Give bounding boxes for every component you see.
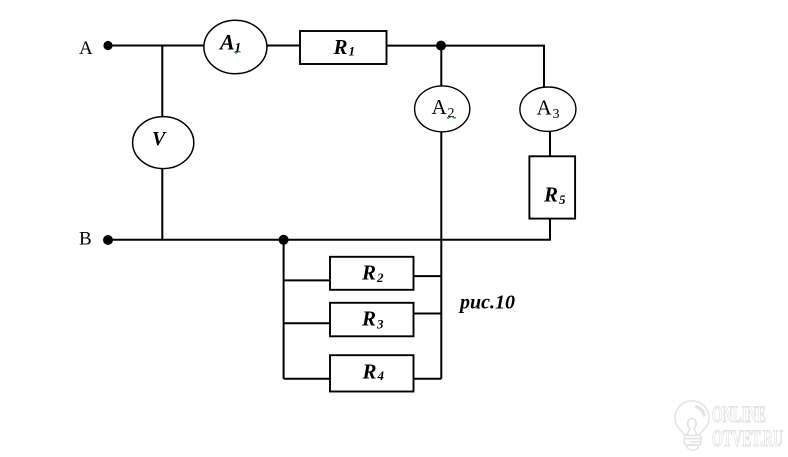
svg-text:B: B (79, 229, 92, 250)
svg-text:A: A (537, 96, 553, 120)
wire left stub to R4 (284, 378, 330, 380)
svg-text:R: R (543, 183, 558, 207)
ammeter A3 (520, 87, 576, 131)
node B (103, 235, 113, 245)
wire resistor bank left bus (283, 240, 285, 379)
svg-text:5: 5 (559, 192, 566, 207)
svg-text:R: R (333, 35, 348, 59)
wire voltmeter branch lower (161, 169, 163, 240)
wire left stub to R3 (284, 322, 330, 324)
svg-text:ONLINE: ONLINE (712, 402, 766, 427)
wire right stub R4 (414, 378, 442, 380)
svg-text:A: A (432, 95, 448, 119)
svg-text:OTVET.RU: OTVET.RU (712, 426, 783, 451)
junction node on B rail (279, 235, 289, 245)
wire A1 to R1 (267, 45, 300, 47)
svg-text:1: 1 (349, 44, 356, 59)
resistor R4 (330, 355, 414, 391)
wire A to ammeter A1 (108, 45, 204, 47)
wire left stub to R2 (284, 279, 330, 281)
resistor R3 (330, 303, 414, 337)
wire B rail (108, 239, 551, 241)
watermark logo bulb (675, 401, 709, 450)
resistor R2 (330, 257, 414, 290)
wire right stub R2 (414, 275, 442, 277)
svg-text:2: 2 (376, 270, 384, 285)
svg-text:4: 4 (377, 368, 385, 383)
resistor R5 (529, 156, 575, 218)
svg-text:R: R (361, 261, 376, 285)
svg-text:3: 3 (376, 317, 384, 332)
wire junction to ammeter A2 (440, 46, 442, 86)
svg-text:R: R (362, 360, 377, 384)
svg-text:рис.10: рис.10 (458, 292, 515, 314)
svg-text:A: A (79, 38, 93, 59)
watermark logo text (712, 402, 783, 451)
svg-text:A: A (218, 30, 235, 55)
resistor R1 (300, 31, 387, 64)
ammeter A1 (204, 20, 267, 74)
spellcheck squiggle under A2 (447, 117, 456, 119)
ammeter A2 (415, 86, 470, 132)
junction node (436, 41, 446, 51)
svg-text:R: R (361, 307, 376, 331)
node A (103, 41, 112, 50)
wire A3 to R5 (549, 131, 551, 156)
wire right stub R3 (414, 313, 442, 315)
svg-text:V: V (152, 128, 167, 150)
wire voltmeter branch upper (161, 46, 163, 118)
wire R5 to B rail (549, 219, 551, 240)
wire A2 down through B rail to resistor bank right bus (440, 132, 442, 379)
wire R1 to A3 branch corner (387, 46, 545, 87)
voltmeter V (133, 117, 194, 169)
svg-text:2: 2 (448, 106, 455, 121)
spellcheck squiggle under A1 (235, 52, 241, 54)
svg-text:3: 3 (553, 107, 560, 122)
svg-text:1: 1 (234, 41, 241, 56)
